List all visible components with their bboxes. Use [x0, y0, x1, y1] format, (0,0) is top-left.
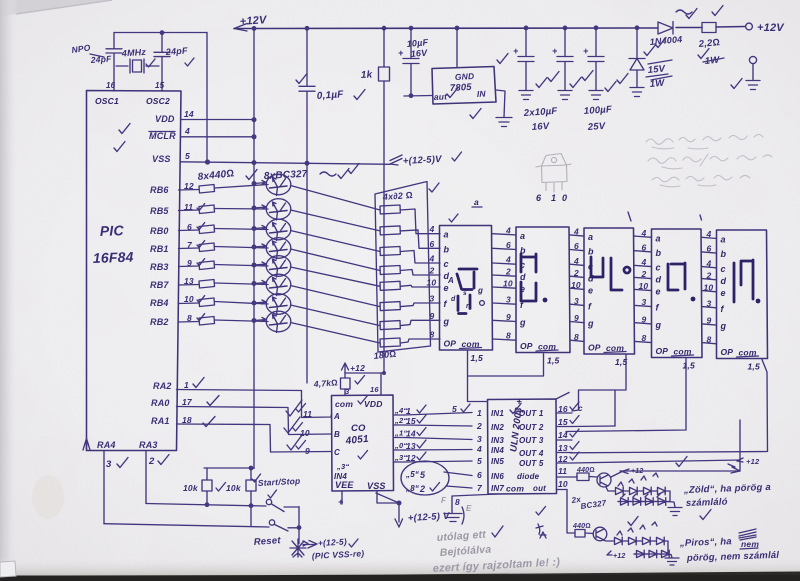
svg-text:IN: IN: [477, 89, 487, 99]
svg-text:1,5: 1,5: [748, 362, 760, 372]
svg-text:+: +: [398, 48, 404, 58]
svg-text:4: 4: [706, 229, 712, 239]
svg-text:15: 15: [558, 417, 568, 427]
svg-text:1k: 1k: [361, 69, 373, 81]
svg-text:4: 4: [573, 227, 579, 237]
svg-text:8: 8: [455, 497, 460, 507]
svg-text:2: 2: [505, 267, 511, 277]
svg-text:A: A: [333, 412, 340, 421]
svg-text:1,5: 1,5: [471, 353, 483, 363]
svg-text:d: d: [721, 276, 727, 286]
svg-text:4: 4: [184, 126, 190, 136]
svg-text:+12V: +12V: [757, 22, 785, 34]
svg-text:+: +: [338, 497, 344, 507]
svg-text:24pF: 24pF: [164, 45, 188, 57]
svg-text:RB7: RB7: [150, 280, 169, 290]
svg-text:15: 15: [155, 81, 165, 90]
svg-text:2: 2: [476, 421, 482, 431]
svg-text:diode: diode: [517, 472, 540, 481]
svg-text:+: +: [583, 46, 589, 56]
svg-text:RB4: RB4: [150, 298, 169, 308]
svg-text:9: 9: [642, 314, 647, 324]
svg-text:IN5: IN5: [491, 457, 504, 466]
svg-text:OUT 5: OUT 5: [519, 459, 544, 468]
svg-text:5: 5: [420, 470, 426, 480]
svg-text:B: B: [334, 430, 340, 439]
svg-text:c: c: [721, 264, 726, 274]
svg-text:17: 17: [182, 397, 193, 407]
svg-text:a: a: [588, 232, 593, 242]
svg-text:3: 3: [106, 459, 112, 470]
svg-text:b: b: [588, 247, 594, 257]
svg-text:8: 8: [430, 330, 435, 340]
svg-text:1,5: 1,5: [547, 356, 559, 366]
svg-text:IN1: IN1: [491, 409, 504, 418]
svg-text:RB5: RB5: [150, 206, 169, 216]
svg-text:+12: +12: [613, 553, 625, 560]
svg-text:10k: 10k: [226, 483, 242, 493]
svg-text:4: 4: [505, 225, 511, 235]
svg-text:RB0: RB0: [150, 226, 169, 236]
svg-text:RB1: RB1: [150, 244, 169, 254]
svg-text:g: g: [587, 319, 594, 329]
svg-text:A: A: [447, 276, 454, 285]
svg-text:5: 5: [452, 404, 457, 414]
svg-text:3: 3: [574, 296, 579, 306]
svg-text:6: 6: [430, 239, 435, 249]
svg-text:OUT 2: OUT 2: [519, 423, 544, 432]
svg-text:10: 10: [639, 281, 649, 291]
svg-text:b: b: [444, 244, 450, 254]
svg-text:RA1: RA1: [151, 416, 170, 426]
svg-text:„8“: „8“: [405, 484, 419, 493]
svg-text:2: 2: [419, 484, 425, 494]
svg-text:0,1µF: 0,1µF: [316, 89, 344, 102]
svg-text:IN4: IN4: [491, 446, 504, 455]
svg-text:4: 4: [706, 258, 712, 268]
svg-text:10k: 10k: [183, 483, 199, 493]
svg-text:b: b: [721, 249, 727, 259]
svg-text:2: 2: [429, 266, 435, 276]
svg-text:2: 2: [641, 269, 647, 279]
svg-text:1,5: 1,5: [683, 361, 695, 371]
svg-text:+(12-5) V: +(12-5) V: [408, 511, 451, 524]
svg-text:9: 9: [506, 312, 511, 322]
svg-text:8xBC327: 8xBC327: [264, 169, 308, 182]
svg-text:11: 11: [558, 466, 567, 476]
svg-text:6: 6: [707, 244, 712, 254]
svg-text:RB6: RB6: [150, 185, 169, 195]
svg-text:IN2: IN2: [491, 423, 504, 432]
svg-text:E: E: [466, 504, 472, 513]
svg-text:OP: OP: [721, 347, 734, 357]
svg-text:számláló: számláló: [686, 497, 728, 509]
svg-text:e: e: [656, 287, 661, 297]
svg-text:0: 0: [562, 193, 567, 203]
svg-text:1: 1: [184, 380, 189, 390]
svg-text:8: 8: [574, 332, 579, 342]
svg-text:2: 2: [148, 456, 155, 467]
svg-text:OSC2: OSC2: [146, 96, 170, 106]
svg-text:16: 16: [106, 81, 116, 90]
svg-text:24pF: 24pF: [89, 54, 112, 66]
svg-text:VDD: VDD: [155, 114, 175, 124]
svg-text:„5“: „5“: [405, 470, 419, 479]
svg-text:8: 8: [506, 331, 511, 341]
svg-text:+(12-5): +(12-5): [318, 536, 348, 548]
svg-text:c: c: [656, 263, 661, 273]
svg-text:2: 2: [573, 268, 579, 278]
svg-text:+12: +12: [746, 457, 760, 466]
svg-text:c: c: [444, 259, 449, 269]
svg-text:OP: OP: [444, 339, 457, 349]
svg-text:4: 4: [573, 256, 579, 266]
svg-text:6: 6: [536, 193, 542, 203]
svg-text:9: 9: [707, 316, 712, 326]
svg-text:+(12-5)V: +(12-5)V: [403, 154, 443, 167]
svg-text:+: +: [513, 46, 519, 56]
svg-text:2: 2: [706, 270, 712, 280]
svg-text:+: +: [552, 46, 558, 56]
svg-text:4: 4: [641, 257, 647, 267]
svg-text:16V: 16V: [531, 121, 550, 133]
svg-text:OP: OP: [656, 346, 669, 356]
svg-text:6: 6: [506, 240, 511, 250]
svg-text:a: a: [474, 197, 479, 207]
svg-text:g: g: [443, 316, 450, 326]
svg-text:5: 5: [477, 456, 482, 466]
svg-text:3: 3: [707, 298, 712, 308]
svg-text:b: b: [656, 248, 662, 258]
svg-text:10: 10: [571, 280, 581, 290]
svg-text:9: 9: [574, 313, 579, 323]
svg-text:a: a: [520, 231, 525, 241]
svg-text:out: out: [533, 484, 546, 493]
svg-text:VSS: VSS: [367, 481, 386, 491]
svg-text:4,7kΩ: 4,7kΩ: [312, 377, 338, 389]
svg-text:RA2: RA2: [153, 381, 172, 391]
svg-text:+12: +12: [350, 363, 365, 373]
svg-text:8: 8: [642, 333, 647, 343]
svg-text:VEE: VEE: [335, 480, 354, 490]
svg-text:c: c: [578, 404, 583, 413]
svg-text:4: 4: [476, 444, 482, 454]
svg-text:OUT 3: OUT 3: [519, 436, 544, 445]
svg-text:g: g: [720, 321, 727, 331]
svg-text:11: 11: [303, 409, 312, 419]
svg-text:PIC: PIC: [100, 222, 125, 239]
svg-text:a: a: [444, 230, 449, 240]
svg-text:OSC1: OSC1: [95, 96, 119, 106]
svg-text:a: a: [721, 235, 726, 245]
svg-text:4: 4: [641, 228, 647, 238]
svg-text:com: com: [506, 484, 524, 494]
svg-text:VDD: VDD: [364, 399, 383, 409]
svg-text:GND: GND: [455, 71, 475, 82]
svg-text:4: 4: [429, 224, 435, 234]
svg-text:16F84: 16F84: [93, 249, 134, 266]
svg-text:+12V: +12V: [239, 14, 268, 28]
svg-text:1: 1: [477, 408, 482, 418]
svg-text:g: g: [519, 318, 526, 328]
svg-text:aut: aut: [434, 91, 449, 102]
svg-text:3: 3: [642, 297, 647, 307]
svg-text:16: 16: [558, 404, 568, 414]
svg-text:RA0: RA0: [151, 398, 170, 408]
svg-text:16: 16: [370, 385, 379, 394]
svg-text:6: 6: [642, 242, 647, 252]
svg-text:RB3: RB3: [150, 262, 169, 272]
svg-text:3: 3: [506, 295, 511, 305]
svg-text:4: 4: [505, 255, 511, 265]
svg-text:com: com: [335, 399, 353, 409]
svg-text:IN3: IN3: [491, 436, 504, 445]
svg-text:IN7: IN7: [491, 484, 504, 493]
svg-text:IN6: IN6: [491, 472, 504, 481]
svg-text:OP: OP: [588, 343, 601, 353]
svg-text:25V: 25V: [586, 121, 606, 133]
svg-text:„Piros“, ha: „Piros“, ha: [679, 536, 732, 549]
svg-text:a: a: [656, 233, 661, 243]
svg-text:MCLR: MCLR: [149, 131, 176, 141]
svg-text:10: 10: [503, 279, 513, 289]
svg-text:g: g: [477, 286, 483, 295]
svg-text:5: 5: [185, 151, 190, 161]
svg-text:4MHz: 4MHz: [120, 47, 146, 59]
svg-text:10: 10: [704, 282, 714, 292]
svg-text:13: 13: [558, 443, 568, 453]
svg-text:C: C: [334, 448, 340, 457]
svg-text:1: 1: [551, 193, 556, 203]
svg-text:14: 14: [184, 109, 194, 119]
svg-text:10: 10: [558, 479, 568, 489]
svg-text:6: 6: [574, 241, 579, 251]
svg-text:10: 10: [300, 428, 310, 438]
svg-text:7805: 7805: [450, 82, 473, 94]
svg-text:d: d: [656, 275, 662, 285]
svg-text:CO: CO: [351, 423, 366, 434]
svg-text:9: 9: [430, 311, 435, 321]
svg-text:e: e: [721, 288, 726, 298]
svg-text:RB2: RB2: [150, 317, 169, 327]
svg-text:Reset: Reset: [253, 535, 281, 548]
svg-text:6: 6: [477, 470, 482, 480]
svg-text:3: 3: [477, 434, 482, 444]
svg-text:g: g: [655, 320, 662, 330]
svg-text:e: e: [588, 285, 593, 295]
svg-text:12: 12: [558, 454, 568, 464]
svg-text:10: 10: [427, 278, 437, 288]
svg-text:RA4: RA4: [97, 440, 116, 450]
svg-text:OP: OP: [520, 341, 533, 351]
svg-text:s: s: [463, 290, 467, 297]
svg-text:3: 3: [430, 294, 435, 304]
svg-text:9: 9: [305, 446, 310, 456]
svg-text:„3“: „3“: [336, 462, 349, 471]
svg-text:+12: +12: [631, 468, 643, 475]
svg-text:16V: 16V: [410, 48, 428, 59]
svg-text:IN4: IN4: [334, 472, 347, 481]
svg-text:d: d: [451, 296, 456, 303]
svg-text:4: 4: [429, 254, 435, 264]
svg-text:OUT 4: OUT 4: [519, 449, 544, 458]
svg-text:VSS: VSS: [152, 154, 171, 164]
svg-text:8: 8: [707, 334, 712, 344]
svg-text:100µF: 100µF: [583, 104, 612, 117]
svg-text:RA3: RA3: [139, 440, 158, 450]
